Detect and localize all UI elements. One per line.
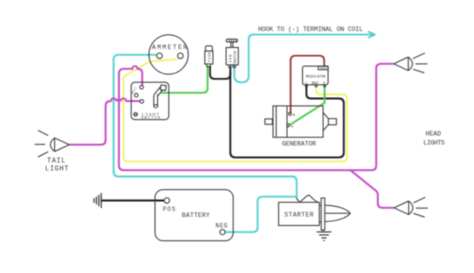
svg-text:FUSE: FUSE: [209, 52, 213, 63]
svg-text:TAIL: TAIL: [47, 158, 66, 166]
svg-text:LIGHT: LIGHT: [45, 166, 69, 174]
svg-text:SWITCH: SWITCH: [234, 51, 238, 64]
svg-text:LIGHTS: LIGHTS: [423, 139, 445, 146]
svg-text:NEG: NEG: [216, 222, 228, 229]
svg-text:REGULATOR: REGULATOR: [306, 76, 327, 80]
svg-text:POS: POS: [163, 206, 176, 213]
svg-text:BATTERY: BATTERY: [182, 212, 210, 219]
svg-text:GENERATOR: GENERATOR: [282, 141, 316, 148]
svg-text:IGN: IGN: [230, 55, 234, 63]
svg-text:SWITCH: SWITCH: [141, 116, 161, 120]
svg-text:HEAD: HEAD: [426, 131, 442, 138]
svg-text:HOOK TO (-) TERMINAL ON COIL: HOOK TO (-) TERMINAL ON COIL: [258, 26, 363, 33]
svg-text:BAT: BAT: [312, 82, 320, 86]
svg-text:GEN: GEN: [320, 67, 326, 70]
svg-text:STARTER: STARTER: [284, 212, 314, 219]
